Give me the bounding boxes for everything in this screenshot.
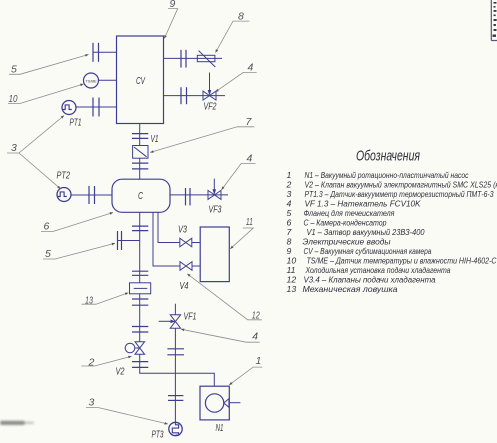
wire V2 down and right to pump: [140, 354, 215, 386]
svg-text:7: 7: [246, 116, 253, 128]
svg-text:5: 5: [45, 248, 51, 260]
svg-text:V1 – Затвор вакуумный 23ВЗ-400: V1 – Затвор вакуумный 23ВЗ-400: [307, 227, 425, 237]
flange pair below VF1: [167, 349, 184, 355]
leader 3 to PT2: [19, 153, 61, 189]
sensor PT3: [169, 422, 182, 435]
wire V1 to C: [139, 158, 141, 179]
leader 6: [41, 213, 113, 232]
svg-text:1: 1: [287, 170, 292, 180]
leader 3 to PT3: [86, 408, 168, 425]
svg-text:V4: V4: [180, 281, 189, 292]
svg-text:VF 1.3 – Натекатель FCV10K: VF 1.3 – Натекатель FCV10K: [305, 199, 422, 209]
needle valve VF3: [208, 190, 221, 199]
svg-text:Фланец для течеискателя: Фланец для течеискателя: [304, 208, 395, 218]
svg-text:CV: CV: [136, 75, 146, 87]
leader 7: [150, 127, 254, 153]
wire VF1 branch up: [174, 328, 176, 373]
leader 4 to VF2: [216, 72, 257, 91]
svg-text:VF3: VF3: [209, 205, 222, 216]
solenoid valve V2: [135, 342, 145, 355]
svg-text:TS/ME: TS/ME: [85, 79, 97, 83]
wire refrigerant line right (to V4): [153, 212, 180, 266]
needle valve VF2: [203, 91, 216, 100]
wire CV left top stub to leak flange: [93, 51, 117, 53]
sensor TS/ME circle U10: [84, 73, 99, 88]
svg-text:7: 7: [287, 227, 293, 237]
svg-text:VF2: VF2: [204, 102, 217, 113]
flange pair on feedthrough line: [181, 50, 186, 68]
valve V3: [180, 238, 192, 247]
leader 2: [81, 356, 131, 366]
svg-text:5: 5: [287, 208, 292, 218]
svg-text:5: 5: [11, 64, 17, 76]
wire CV bottom to V1: [139, 124, 141, 146]
svg-text:9: 9: [287, 246, 292, 256]
wire V4 to refrigeration unit: [192, 265, 200, 267]
svg-text:1: 1: [256, 355, 262, 367]
svg-text:4: 4: [248, 62, 254, 74]
svg-text:13: 13: [287, 284, 297, 294]
pump N1 box: [200, 386, 229, 420]
flange pair on PT1 line: [93, 98, 99, 117]
sensor PT2: [57, 188, 71, 202]
leader 11: [230, 228, 253, 249]
flange pair on VF3 line: [186, 188, 191, 205]
svg-text:V2: V2: [116, 367, 125, 378]
frame fragment top right: [491, 0, 497, 41]
svg-text:4: 4: [287, 199, 292, 209]
svg-text:PT1.3 – Датчик-вакуумметр терм: PT1.3 – Датчик-вакуумметр терморезисторн…: [305, 189, 494, 199]
wire PT1 to CV: [76, 106, 117, 108]
flange pair above PT3: [168, 396, 183, 401]
chamber CV box: [117, 36, 164, 124]
svg-text:C: C: [138, 190, 143, 202]
svg-text:12: 12: [252, 310, 260, 322]
svg-text:Обозначения: Обозначения: [356, 149, 420, 165]
leader 13: [82, 293, 129, 304]
leader 3 to PT1: [7, 116, 64, 154]
leader 12: [187, 274, 261, 320]
wire PT2 to C: [71, 194, 113, 196]
wire CV right top to feedthrough: [164, 57, 223, 59]
flange pair on VF2 line: [181, 87, 187, 104]
leader 9: [164, 9, 177, 39]
svg-text:N1: N1: [216, 423, 224, 434]
flange pair above V1: [132, 134, 148, 139]
svg-text:V2 – Клапан вакуумный электром: V2 – Клапан вакуумный электромагнитный S…: [305, 180, 497, 190]
svg-text:6: 6: [44, 221, 50, 233]
svg-text:Электрические вводы: Электрические вводы: [303, 237, 392, 247]
svg-text:N1 – Вакуумный ротационно-плас: N1 – Вакуумный ротационно-пластинчатый н…: [305, 170, 469, 180]
wire CV right to VF2: [164, 95, 226, 97]
leader 5 bottom: [43, 243, 115, 259]
flange for leak detector (5) bottom: [118, 231, 122, 250]
svg-text:Механическая ловушка: Механическая ловушка: [303, 284, 398, 294]
flange pair below trap: [132, 299, 148, 305]
svg-text:10: 10: [9, 93, 18, 105]
wire V3 to refrigeration unit: [192, 242, 200, 244]
svg-text:3: 3: [89, 397, 95, 409]
refrigeration unit box (11): [200, 227, 229, 282]
needle valve VF1: [170, 315, 180, 328]
svg-text:8: 8: [238, 11, 244, 23]
svg-text:11: 11: [246, 216, 253, 228]
svg-text:11: 11: [287, 265, 296, 275]
svg-text:12: 12: [287, 275, 297, 285]
svg-text:3: 3: [11, 142, 17, 154]
sensor PT1: [62, 101, 76, 115]
wire TS/ME circle to CV: [99, 79, 117, 81]
wire PT3 branch down: [174, 373, 176, 422]
condenser vessel C: [112, 179, 170, 212]
svg-text:6: 6: [287, 218, 292, 228]
flange pair below V1: [132, 163, 148, 169]
svg-text:V3: V3: [178, 225, 187, 236]
flange pair above V2: [132, 327, 148, 333]
leader 10: [8, 84, 84, 104]
svg-text:PT1: PT1: [70, 118, 82, 129]
svg-text:V3.4 – Клапаны подачи хладаген: V3.4 – Клапаны подачи хладагента: [304, 275, 436, 285]
svg-text:VF1: VF1: [184, 312, 197, 323]
scan smudge bottom left: [0, 421, 34, 425]
svg-text:Холодильная установка подачи х: Холодильная установка подачи хладагента: [305, 265, 451, 275]
wire refrigerant line left (to V3): [158, 212, 180, 242]
svg-text:10: 10: [287, 256, 297, 266]
svg-text:8: 8: [287, 237, 292, 247]
svg-text:TS/ME – Датчик температуры и в: TS/ME – Датчик температуры и влажности H…: [307, 256, 497, 266]
gate valve V1: [133, 146, 148, 159]
svg-text:С – Камера-конденсатор: С – Камера-конденсатор: [304, 218, 387, 228]
svg-text:4: 4: [252, 331, 258, 343]
flange pair below C: [132, 226, 148, 231]
mechanical trap (13): [130, 283, 151, 294]
svg-text:9: 9: [170, 0, 176, 10]
wire C bottom main line to trap: [139, 212, 141, 282]
flange pair on PT2 line: [89, 186, 95, 204]
flange for leak detector (5) top: [93, 43, 99, 62]
wire pump exhaust: [229, 402, 240, 404]
flange pair above trap: [132, 271, 148, 275]
valve V4: [180, 262, 192, 271]
flange pair below V2: [132, 362, 148, 368]
svg-text:2: 2: [88, 357, 95, 369]
leader 5 top: [9, 55, 89, 75]
leader 4 to VF3: [222, 163, 256, 189]
wire C right to VF3: [170, 194, 228, 196]
leader 4 to VF1: [181, 329, 260, 342]
svg-text:CV – Вакуумная сублимационная: CV – Вакуумная сублимационная камера: [304, 246, 432, 256]
svg-text:V1: V1: [151, 134, 159, 145]
leader 8: [216, 21, 250, 52]
wire leak stub: [118, 240, 140, 242]
svg-text:PT3: PT3: [152, 430, 164, 441]
svg-text:2: 2: [286, 180, 292, 190]
wire trap to V2: [139, 294, 141, 342]
leader 1: [229, 367, 262, 385]
svg-text:4: 4: [247, 153, 253, 165]
svg-text:3: 3: [287, 189, 292, 199]
svg-text:PT2: PT2: [57, 171, 71, 182]
electrical feedthrough (8): [197, 55, 215, 61]
svg-text:13: 13: [85, 295, 93, 307]
